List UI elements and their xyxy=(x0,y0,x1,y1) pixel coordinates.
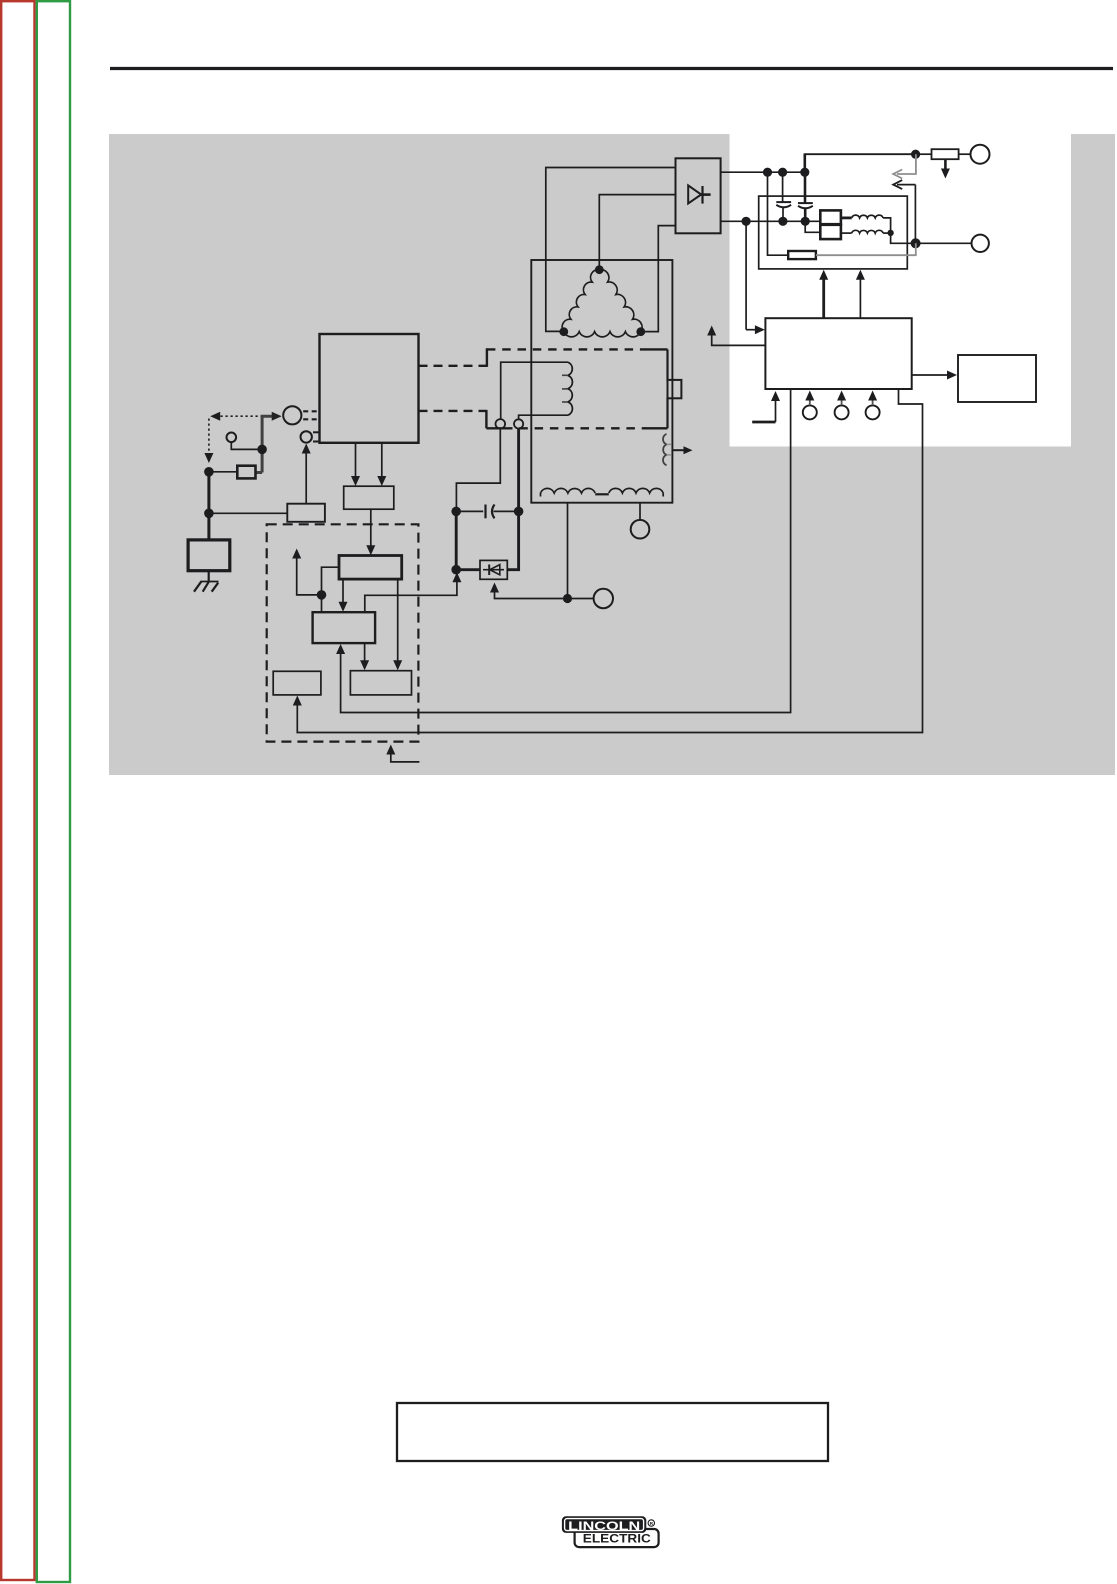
battery positive lead (thick) xyxy=(207,472,210,540)
junction dot (diode left) xyxy=(451,565,461,575)
wire engine to idle box 2 xyxy=(377,443,386,486)
white inset panel (output filter area) xyxy=(730,134,1072,447)
wire choke2 out xyxy=(883,232,891,234)
wire idle box to logic box xyxy=(366,509,375,555)
feedback line 2 (board to logic4) xyxy=(293,389,923,733)
wire aux tap 1 down xyxy=(567,503,569,599)
junction dot bus 1 xyxy=(763,168,772,177)
board connector arrow 1 xyxy=(805,391,814,406)
node dot delta right xyxy=(636,327,645,336)
external input arrow (below dashed box) xyxy=(386,745,419,762)
logic box 2 xyxy=(313,612,376,643)
idle solenoid box xyxy=(344,486,394,509)
output terminal circle (+) xyxy=(971,145,990,164)
arrowhead right (aux coil out) xyxy=(684,446,693,454)
wire to shunt xyxy=(916,153,932,155)
page margin crop bar (green) xyxy=(37,1,70,1582)
junction dot (weld terminal node) xyxy=(563,594,572,603)
wire cap2 to IGBT lower xyxy=(805,221,820,232)
slip ring 1 xyxy=(496,419,506,429)
wire delta-top to rectifier input 2 xyxy=(599,195,675,270)
mechanical coupling dashed (engine to rotor, upper) xyxy=(419,348,487,367)
board connector circle 1 xyxy=(803,405,817,419)
junction dot bus 2 xyxy=(778,168,787,177)
arrowhead left (dotted feedback) xyxy=(210,412,220,421)
DC bus top rail xyxy=(721,171,805,173)
wire delta-right to rectifier input 3 xyxy=(641,226,676,332)
wire board to display box xyxy=(912,374,950,376)
arrow up from logic tap xyxy=(292,549,321,595)
wire thick into fuse right side xyxy=(256,471,263,474)
junction dot bus 3 xyxy=(800,168,809,177)
current sense wire A (gray) xyxy=(893,154,916,178)
delta winding side C xyxy=(599,270,642,332)
rectifier diode symbol xyxy=(688,185,710,203)
junction dot bottom rail 1 xyxy=(778,217,787,226)
feedback line 1 (board to logic2) xyxy=(336,389,790,713)
arrowhead into display box xyxy=(947,371,957,380)
precharge resistor box xyxy=(788,251,816,259)
IGBT upper element xyxy=(820,210,841,224)
revision note box xyxy=(397,1403,828,1461)
Lincoln Electric logo xyxy=(562,1516,659,1547)
board supply stub (thick) xyxy=(752,391,780,422)
aux coil ticks xyxy=(667,444,672,455)
auxiliary winding (right half) xyxy=(609,488,663,496)
rotor boundary right edge xyxy=(666,349,668,428)
wire field coil top to slip ring 1 xyxy=(501,362,568,419)
display box xyxy=(958,355,1036,402)
throttle actuator wire (thick) xyxy=(262,416,274,472)
throttle dotted feedback (vertical) xyxy=(208,419,210,456)
shunt resistor box xyxy=(932,149,959,159)
wire choke1 out xyxy=(883,218,891,230)
logic box 4 xyxy=(273,671,321,695)
starter/alternator circle xyxy=(283,406,301,424)
wire to aux terminal 1 xyxy=(572,598,594,600)
hourmeter circle xyxy=(301,431,312,442)
node dot delta left xyxy=(559,327,568,336)
bus sense wire to control board xyxy=(745,221,747,329)
bus capacitor 2 (thick leg) xyxy=(798,172,813,221)
header rule xyxy=(110,67,1113,70)
junction dot bottom rail 0 xyxy=(742,217,751,226)
field flashing diode box xyxy=(480,560,507,579)
wire shunt to terminal xyxy=(959,153,971,155)
arrowhead up into diode box xyxy=(490,583,499,593)
junction dot (battery top node) xyxy=(204,467,214,477)
choke inductor 2 xyxy=(852,230,883,233)
wire fuse to battery node xyxy=(209,471,237,473)
delta winding side A xyxy=(562,270,599,332)
junction dot (shunt tap) xyxy=(911,150,920,159)
arrowhead down (dotted feedback) xyxy=(204,453,213,463)
IGBT lower element xyxy=(820,225,841,239)
junction dot (logic tap) xyxy=(317,590,327,600)
junction dot (throttle wire) xyxy=(257,445,267,455)
junction dot (cap left) xyxy=(451,507,461,517)
slip ring 2 xyxy=(514,419,523,428)
wire flash node down (thick) xyxy=(455,511,458,569)
throttle dotted feedback (horizontal) xyxy=(216,415,263,417)
thick link IGBT to choke 1 xyxy=(841,216,852,219)
svg-text:LINCOLN: LINCOLN xyxy=(568,1519,640,1533)
node dot delta top xyxy=(595,265,604,274)
field diode symbol xyxy=(483,565,504,576)
precharge resistor feed xyxy=(768,172,789,255)
engine protection box xyxy=(287,504,325,522)
ground symbol xyxy=(194,581,219,592)
control board box xyxy=(765,318,911,389)
output terminal circle (-) xyxy=(972,235,989,252)
rotor boundary dashed (upper) xyxy=(487,348,668,350)
page margin crop bar (red) xyxy=(1,1,34,1580)
flash capacitor xyxy=(456,505,518,519)
arrowhead right into starter circle xyxy=(272,412,282,421)
board connector circle 3 xyxy=(866,405,880,419)
wire diode bottom to weld terminal xyxy=(495,587,564,599)
hourmeter to engine dashed link xyxy=(313,432,320,441)
wire protection box to hourmeter xyxy=(305,449,307,504)
stator aux coil (right edge) xyxy=(663,434,666,465)
mechanical coupling dashed (engine to rotor, lower) xyxy=(419,410,487,428)
wire to output terminal (-) xyxy=(916,242,971,244)
arrowhead into control board (left) xyxy=(746,325,765,334)
wire slip ring 2 to diode (thick) xyxy=(507,429,518,570)
rectifier bridge box xyxy=(676,158,721,233)
junction dot chokes xyxy=(887,230,893,236)
wire aux tap 2 down xyxy=(639,503,641,520)
wire chokes to output xyxy=(891,233,916,243)
gate drive line 1 (thick) xyxy=(819,270,828,318)
weld control dashed enclosure xyxy=(267,524,419,741)
voltage sense wire (gray) xyxy=(816,243,916,255)
wire logic2 top to flash node xyxy=(365,572,462,612)
board output arrow up-left xyxy=(707,326,765,346)
auxiliary winding center tap xyxy=(595,493,609,495)
board connector arrow 3 xyxy=(868,391,877,406)
figure background panel xyxy=(109,134,1115,775)
gate drive line 2 xyxy=(856,270,865,318)
rotor field coil xyxy=(568,362,572,415)
junction dot (cap right) xyxy=(514,507,524,517)
logic box 1 (thick) xyxy=(339,556,402,580)
wire logic tap into box 2 xyxy=(321,595,323,612)
wire engine to idle box 1 xyxy=(351,443,360,486)
wire logic1 left tap xyxy=(322,567,340,595)
battery box xyxy=(188,540,230,571)
starter to engine dashed link xyxy=(303,411,319,419)
wire logic1 to logic2 arrow xyxy=(339,579,348,612)
junction dot output (-) xyxy=(911,238,921,248)
wire into field diode (thick) xyxy=(456,568,480,571)
board connector circle 2 xyxy=(835,405,849,419)
wire aux coil out xyxy=(672,449,687,451)
rotor boundary dashed (lower) xyxy=(486,427,667,429)
board connector arrow 2 xyxy=(837,391,846,406)
generator stator box xyxy=(531,260,672,503)
svg-text:R: R xyxy=(650,1521,654,1527)
junction dot (battery/protection tap) xyxy=(204,509,214,519)
chopper module box xyxy=(759,196,908,269)
logic box 3 xyxy=(350,671,411,695)
svg-text:ELECTRIC: ELECTRIC xyxy=(583,1532,651,1546)
wire battery tap to protection box xyxy=(209,512,287,514)
bus riser to shunt (thick) xyxy=(805,153,916,172)
flywheel notch xyxy=(668,380,682,398)
DC bus bottom rail xyxy=(721,220,821,222)
engine box xyxy=(320,334,419,443)
fuse box xyxy=(237,466,255,479)
switch stub wire xyxy=(231,442,260,449)
wire logic2 to box3 arrow xyxy=(360,643,369,670)
choke inductor 1 xyxy=(852,215,883,218)
junction dot bottom rail 2 xyxy=(801,217,810,226)
wire logic1 to box3 arrow xyxy=(393,579,402,670)
battery ground stub xyxy=(208,571,210,582)
aux terminal circle 1 xyxy=(594,589,613,608)
shunt polarity arrow xyxy=(941,159,950,178)
arrowhead up into hourmeter xyxy=(302,444,311,454)
auxiliary winding (left half) xyxy=(541,488,596,496)
wire field coil bottom to slip ring 2 xyxy=(519,415,568,419)
aux terminal circle 2 xyxy=(631,520,650,539)
wire delta-left to rectifier input 1 xyxy=(546,168,676,332)
oil pressure switch circle xyxy=(227,433,237,443)
bus capacitor 1 xyxy=(776,172,791,221)
wire slip ring 1 to flash node xyxy=(456,429,500,512)
delta winding side B (bottom) xyxy=(564,332,641,337)
link IGBT lower to choke 2 xyxy=(841,232,852,234)
current sense wire B xyxy=(893,180,915,238)
field coil taps (ticks) xyxy=(562,375,568,402)
